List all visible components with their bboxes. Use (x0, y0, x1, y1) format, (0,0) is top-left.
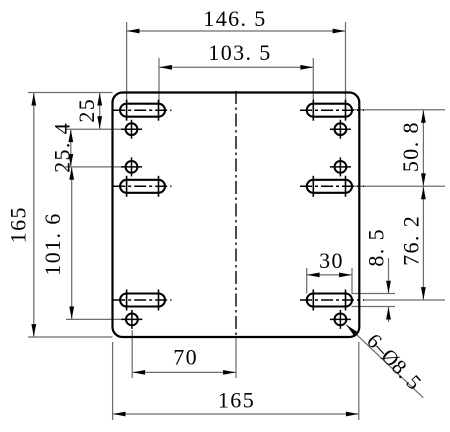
svg-text:146. 5: 146. 5 (203, 6, 266, 31)
svg-text:101. 6: 101. 6 (40, 212, 65, 275)
svg-text:25: 25 (74, 98, 99, 123)
svg-text:165: 165 (218, 388, 255, 413)
svg-text:8. 5: 8. 5 (364, 228, 389, 267)
svg-text:76. 2: 76. 2 (398, 215, 423, 266)
svg-text:70: 70 (173, 345, 198, 370)
svg-text:103. 5: 103. 5 (208, 40, 271, 65)
svg-text:165: 165 (5, 206, 30, 243)
svg-text:25. 4: 25. 4 (50, 122, 75, 173)
svg-text:50. 8: 50. 8 (398, 121, 423, 172)
svg-text:30: 30 (319, 248, 344, 273)
